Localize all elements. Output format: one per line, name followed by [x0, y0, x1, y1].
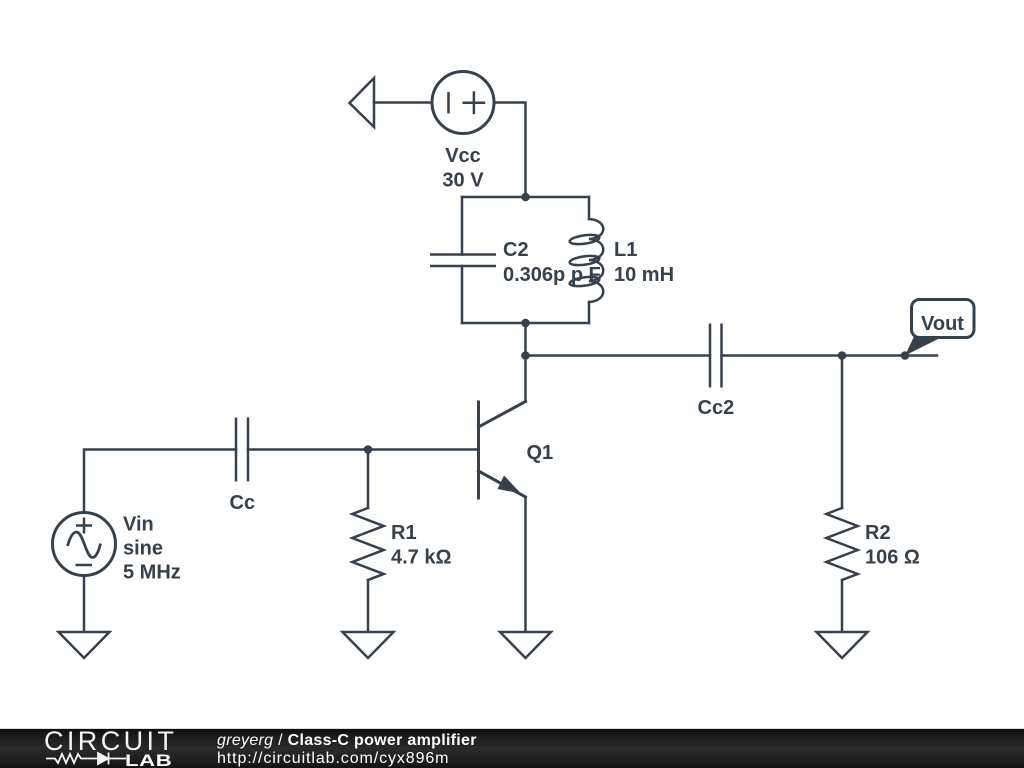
resistor R1 [352, 450, 383, 633]
svg-text:L1: L1 [614, 239, 637, 261]
wire Vin to ground [83, 576, 86, 633]
inductor L1 [569, 197, 603, 323]
wire collector node to Cc2 [526, 354, 711, 357]
transistor Q1 [479, 402, 526, 499]
svg-text:R2: R2 [865, 522, 891, 544]
ground R1 [343, 632, 394, 658]
svg-text:Cc2: Cc2 [698, 397, 735, 419]
svg-text:Cc: Cc [230, 492, 256, 514]
svg-text:Vcc: Vcc [445, 145, 481, 167]
CircuitLab logo resistor-diode glyph [42, 749, 138, 768]
capacitor Cc [236, 418, 248, 482]
svg-text:Q1: Q1 [527, 442, 554, 464]
svg-text:Vout: Vout [921, 313, 964, 335]
footer bar [0, 728, 1024, 768]
svg-text:30 V: 30 V [442, 170, 484, 192]
node junction base/R1 [364, 445, 373, 454]
ground Q1 emitter [500, 632, 551, 658]
svg-text:C2: C2 [503, 239, 529, 261]
svg-text:Vin: Vin [123, 514, 154, 536]
capacitor C2 [430, 197, 496, 323]
wire Vin to Cc [84, 450, 236, 513]
wire Vcc source to tank top [494, 103, 526, 198]
node junction collector [521, 351, 530, 360]
wire base [248, 448, 479, 451]
svg-text:10 mH: 10 mH [614, 264, 674, 286]
svg-text:4.7 kΩ: 4.7 kΩ [391, 547, 452, 569]
wire Cc2 to output [722, 354, 938, 357]
svg-text:106 Ω: 106 Ω [865, 547, 920, 569]
CircuitLab logo wordmark [44, 728, 177, 755]
svg-text:R1: R1 [391, 522, 417, 544]
node junction R2 top [838, 351, 847, 360]
wire tank bottom [462, 322, 589, 325]
wire tank bottom to collector node [524, 323, 527, 356]
node junction tank bottom [521, 319, 530, 328]
svg-text:sine: sine [123, 538, 163, 560]
ground R2 [817, 632, 868, 658]
capacitor Cc2 [710, 324, 722, 388]
wire collector node down to Q1 [524, 356, 527, 402]
node flag Vout [905, 300, 974, 356]
voltage source Vin [53, 513, 116, 576]
ground Vin [59, 632, 110, 658]
footer credit text [217, 732, 477, 768]
resistor R2 [826, 356, 857, 633]
wire Q1 emitter to ground [524, 497, 527, 632]
svg-text:5 MHz: 5 MHz [123, 562, 181, 584]
node junction tank top [521, 193, 530, 202]
node Vout junction [901, 351, 910, 360]
wire flag to Vcc source [374, 101, 432, 104]
voltage source Vcc [432, 72, 494, 134]
wire tank top [462, 196, 589, 199]
Vcc supply flag [350, 78, 375, 127]
